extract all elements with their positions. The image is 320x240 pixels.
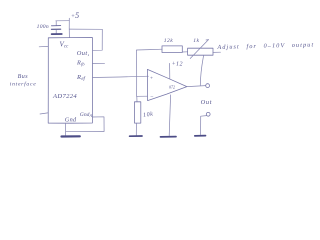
- resistor R2 10k: [135, 102, 141, 123]
- wire feedback top rail: [137, 48, 163, 51]
- ground (R2): [130, 135, 142, 137]
- wire Rfb stub: [93, 62, 105, 64]
- wire op-amp output: [187, 86, 206, 87]
- IC U1 AD7224 box: [48, 38, 92, 124]
- svg-text:interface: interface: [10, 81, 37, 88]
- svg-text:072: 072: [169, 84, 175, 89]
- power +5 label: [71, 11, 79, 20]
- pin stub left lower: [40, 113, 48, 114]
- svg-text:12k: 12k: [164, 38, 173, 44]
- terminal 0V: [206, 112, 210, 116]
- wire minus to R2: [136, 96, 138, 102]
- wire GndA loop to ground: [66, 117, 104, 132]
- wire R1 to pot: [182, 51, 187, 53]
- wire feedback vertical: [136, 50, 138, 96]
- svg-text:Out: Out: [201, 99, 213, 106]
- svg-text:+: +: [150, 76, 154, 82]
- wire R2 bottom stem: [135, 123, 137, 135]
- wire 0V terminal to ground: [201, 116, 207, 135]
- capacitor C1 100n: [51, 21, 60, 33]
- wire pot wiper down to output node: [200, 55, 203, 85]
- svg-text:Bus: Bus: [18, 74, 29, 80]
- svg-text:10k: 10k: [143, 112, 154, 119]
- ground (below capacitor): [52, 33, 62, 35]
- wire Ref to op-amp + input: [93, 76, 149, 77]
- svg-text:+12: +12: [172, 61, 183, 67]
- svg-text:Out,: Out,: [77, 50, 90, 57]
- svg-text:Gnd: Gnd: [65, 116, 77, 123]
- svg-text:Vcc: Vcc: [60, 41, 70, 50]
- potentiometer P1 1k: [188, 40, 213, 59]
- ground (0V terminal): [195, 135, 206, 137]
- svg-text:GndA: GndA: [80, 112, 93, 118]
- svg-text:−: −: [150, 95, 154, 101]
- pin stub left upper: [39, 45, 48, 47]
- svg-text:100n: 100n: [37, 24, 49, 30]
- power +12 stub: [169, 63, 171, 78]
- wire Out pin loop to +5 rail: [69, 29, 102, 50]
- terminal output: [206, 84, 210, 88]
- wire IC ground stem: [65, 123, 67, 135]
- svg-text:Ref: Ref: [76, 74, 86, 82]
- op-amp U2: [147, 69, 187, 100]
- svg-text:1k: 1k: [193, 38, 199, 44]
- svg-text:+5: +5: [71, 11, 79, 20]
- label Bus interface: [10, 74, 37, 88]
- svg-text:AD7224: AD7224: [52, 93, 77, 100]
- wire +5 vertical to Vcc: [68, 18, 70, 37]
- ground (IC): [62, 135, 80, 137]
- svg-text:Rfb: Rfb: [76, 59, 85, 66]
- wire minus input: [137, 95, 148, 97]
- resistor R1 12k: [162, 46, 182, 53]
- wire op-amp ground stem: [169, 95, 170, 136]
- wire pot right stub: [213, 51, 221, 53]
- ground (op-amp): [161, 136, 177, 138]
- svg-text:Adjust for 0–10V output: Adjust for 0–10V output: [216, 41, 314, 51]
- wire cap top connection: [56, 20, 70, 22]
